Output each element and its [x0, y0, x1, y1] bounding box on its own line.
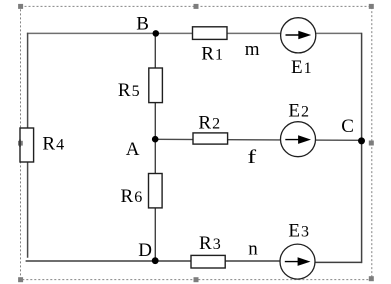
wire right side — [361, 33, 363, 263]
svg-text:E1: E1 — [291, 57, 312, 78]
wire bottom D-row left of E3 — [26, 260, 298, 262]
resistor R6 — [149, 174, 163, 208]
handle bottom-middle — [194, 277, 199, 282]
source E2 — [281, 122, 316, 157]
svg-text:A: A — [126, 139, 140, 160]
resistor R3 — [191, 255, 225, 268]
wire middle horizontal A-C — [155, 139, 361, 140]
node B junction dot — [153, 30, 160, 37]
svg-text:B: B — [136, 14, 149, 35]
resistor R2 — [193, 133, 228, 144]
handle bottom-left — [18, 277, 23, 282]
svg-text:E3: E3 — [288, 221, 309, 242]
resistor R4 left edge over handle — [19, 140, 21, 148]
node A junction dot — [152, 136, 159, 143]
svg-text:R1: R1 — [201, 43, 223, 64]
handle top-right — [369, 4, 374, 9]
node C junction dot — [358, 137, 365, 144]
svg-text:R6: R6 — [121, 186, 143, 207]
source E1 — [281, 18, 316, 53]
wire bottom D-row right of E3 — [298, 261, 362, 263]
svg-text:n: n — [248, 239, 258, 260]
svg-text:R3: R3 — [199, 233, 221, 254]
svg-text:C: C — [341, 116, 354, 137]
svg-text:D: D — [138, 240, 152, 261]
source E3 — [280, 244, 315, 279]
wire middle vertical B-A-D — [154, 33, 156, 261]
wire left side — [27, 33, 29, 258]
svg-text:f: f — [247, 146, 256, 167]
handle top-left — [18, 4, 23, 9]
svg-text:R2: R2 — [198, 113, 220, 134]
svg-text:E2: E2 — [288, 101, 309, 122]
resistor R1 — [193, 27, 228, 40]
handle bottom-right — [369, 276, 374, 281]
svg-text:R5: R5 — [118, 80, 140, 101]
handle middle-right — [369, 141, 374, 146]
svg-text:R4: R4 — [42, 133, 64, 154]
handle top-middle — [194, 4, 199, 9]
resistor R5 — [149, 68, 163, 103]
node D junction dot — [152, 257, 159, 264]
resistor R4 — [20, 128, 34, 162]
wire top B-row — [27, 32, 362, 34]
handle middle-left — [18, 141, 23, 146]
svg-text:m: m — [245, 39, 260, 60]
